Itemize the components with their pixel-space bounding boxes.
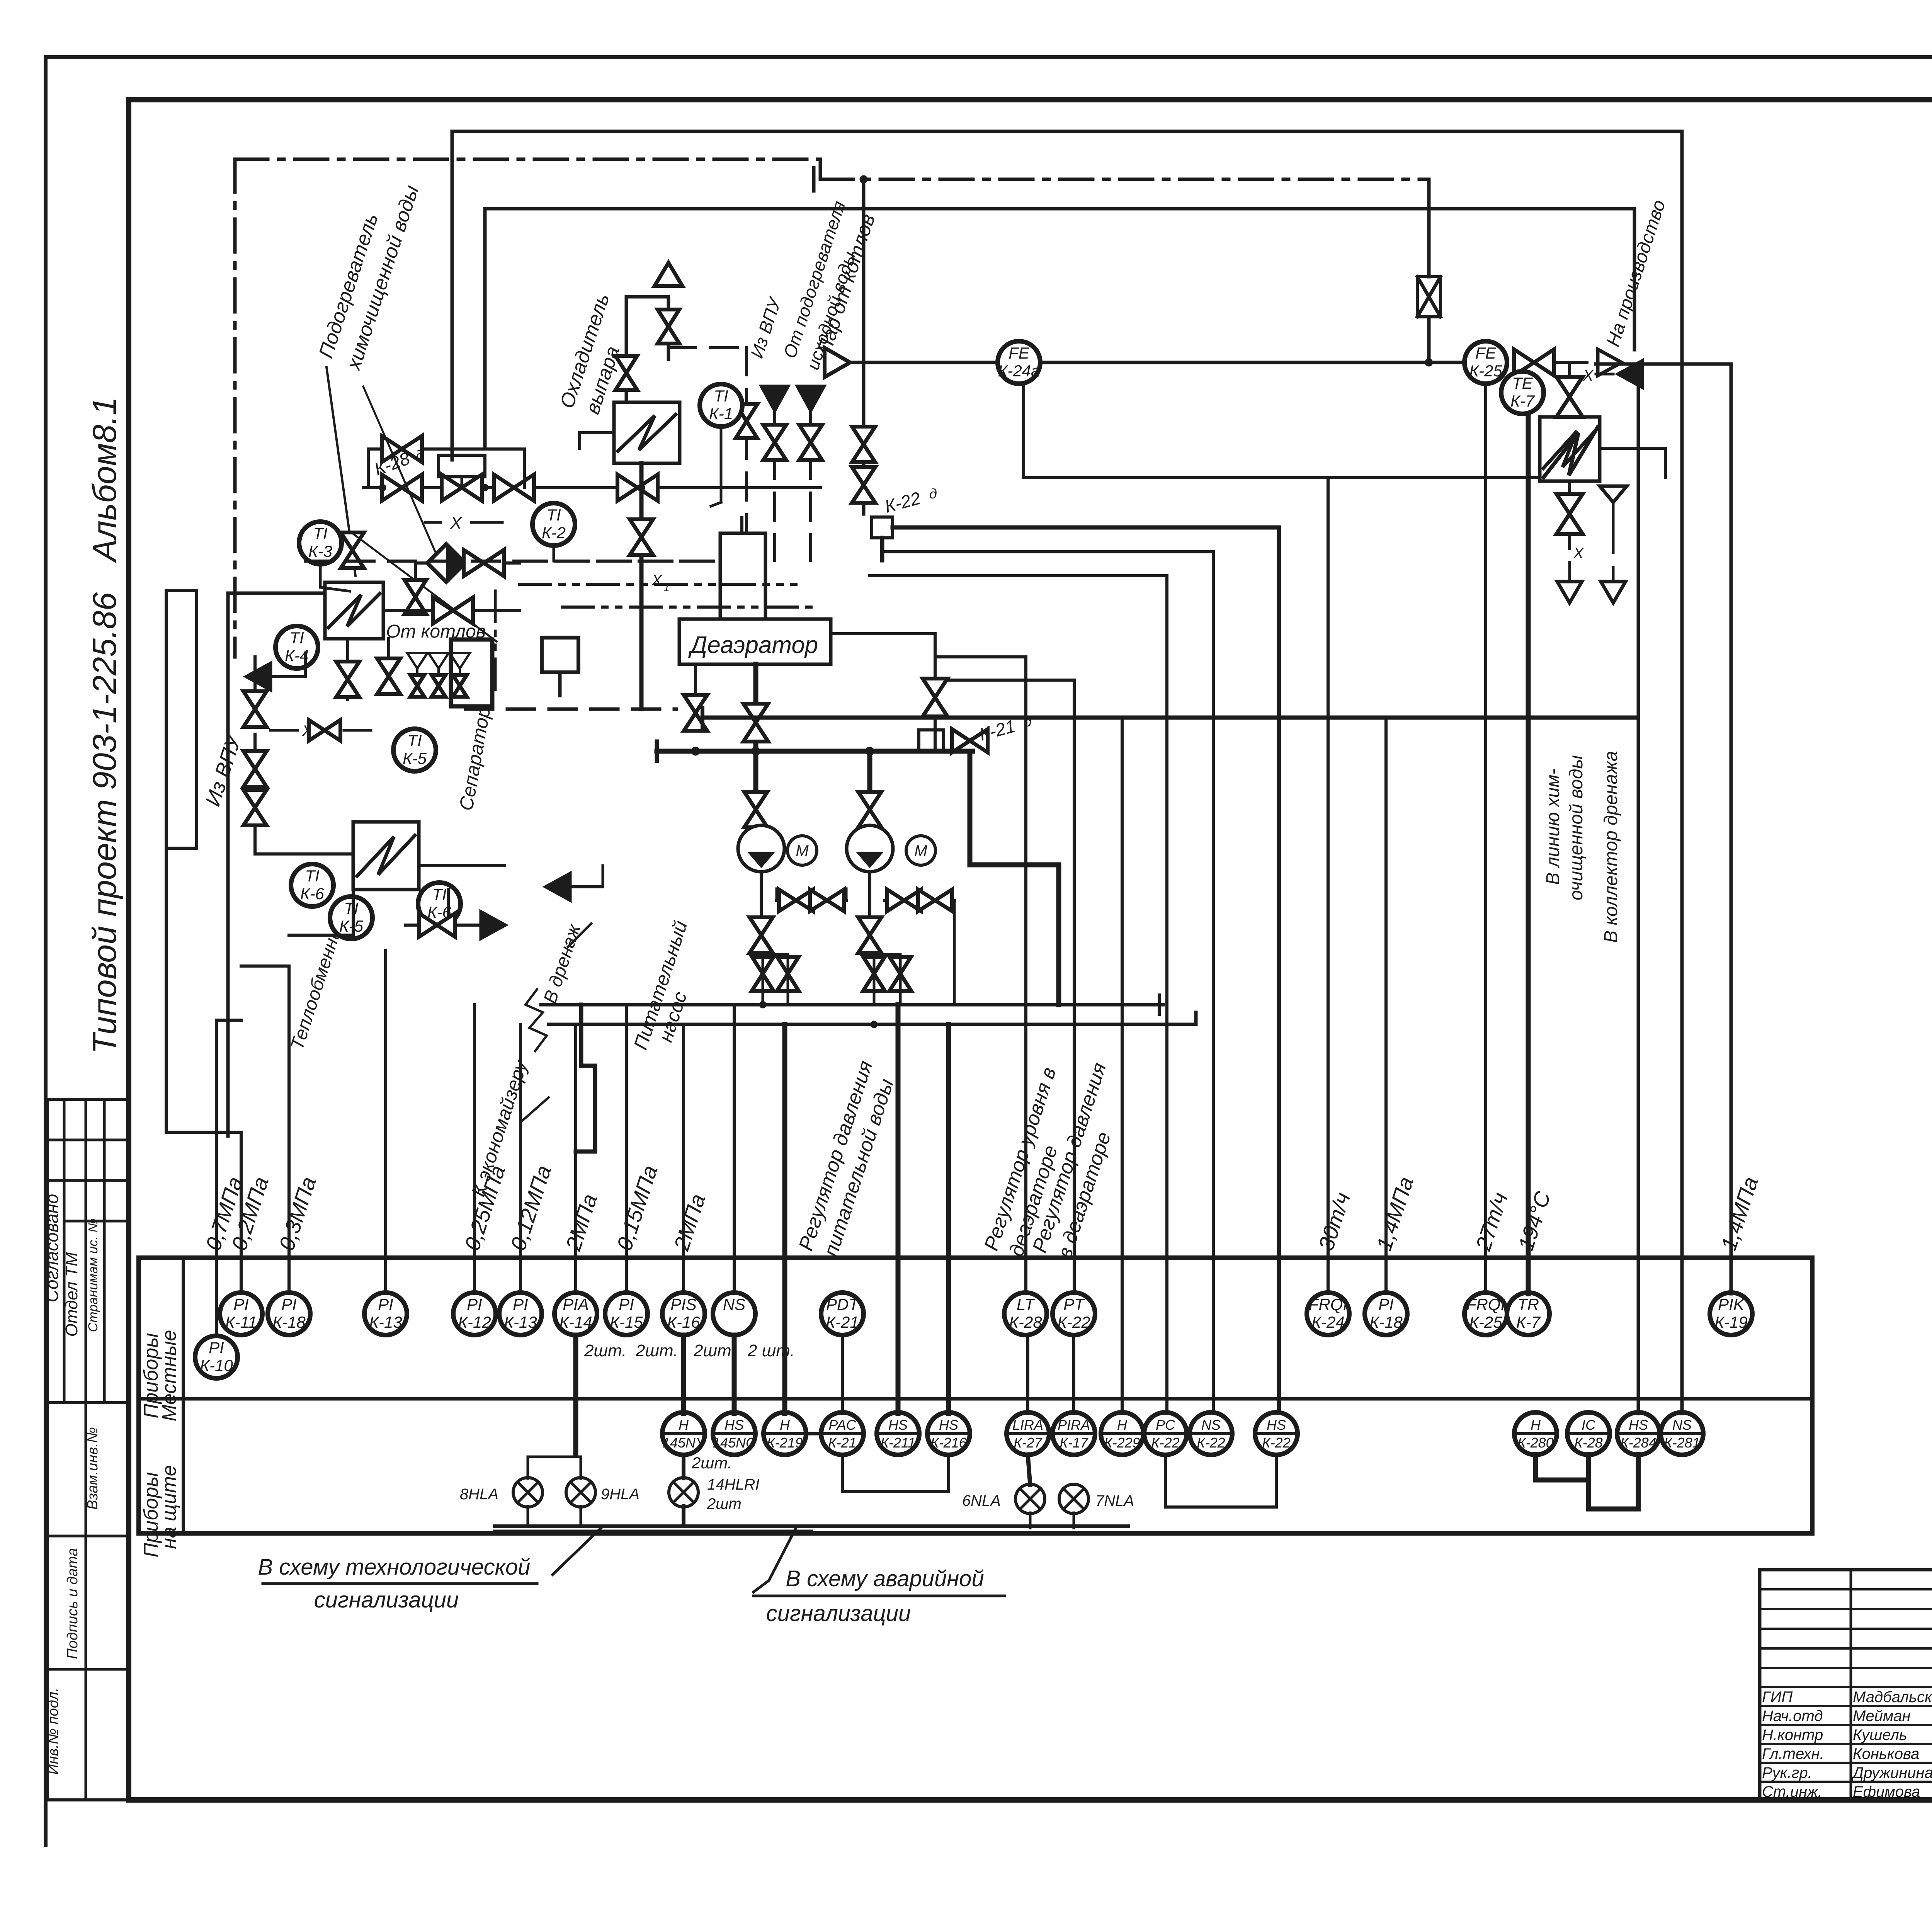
svg-text:27т/ч: 27т/ч <box>1471 1189 1512 1254</box>
vapour cooler inlet chain <box>626 297 668 402</box>
svg-text:TI: TI <box>546 506 561 524</box>
drain dash line <box>1612 526 1615 580</box>
K-28d bypass valve <box>382 436 422 462</box>
svg-text:8HLA: 8HLA <box>460 1486 498 1503</box>
stamp column vertical 222 <box>85 1099 87 1800</box>
K-28d main line <box>363 486 820 489</box>
svg-text:TI: TI <box>305 867 320 885</box>
text В схему аварийной <box>753 1566 1005 1596</box>
instrument PDT К-21 local <box>821 1293 864 1335</box>
pump1 suction valve <box>744 751 767 830</box>
svg-text:К-18: К-18 <box>1369 1313 1403 1331</box>
svg-text:В схему аварийной: В схему аварийной <box>786 1566 984 1591</box>
pump1 out valve <box>750 917 773 953</box>
label Пар от котлов <box>813 211 879 357</box>
instrument PI К-11 local <box>220 1293 262 1335</box>
K-28d left riser <box>367 449 370 488</box>
TI K-1 stem <box>711 426 721 506</box>
HX2 outlet right <box>419 864 505 867</box>
svg-text:1,4МПа: 1,4МПа <box>1371 1174 1418 1254</box>
svg-text:HS: HS <box>724 1417 744 1433</box>
funnel drain right <box>1600 486 1627 526</box>
svg-text:К-10: К-10 <box>200 1356 233 1374</box>
filter diamond <box>427 544 465 582</box>
pump 1 <box>738 825 784 872</box>
svg-text:Рук.гр.: Рук.гр. <box>1762 1764 1812 1781</box>
K-28d right valve <box>617 475 658 501</box>
svg-text:TI: TI <box>313 524 328 543</box>
svg-text:К-3: К-3 <box>308 542 332 560</box>
dash-dot-dot line B <box>562 606 819 609</box>
svg-text:PAC: PAC <box>828 1417 856 1433</box>
svg-text:PC: PC <box>1156 1417 1175 1433</box>
vapour valve 2 <box>616 356 637 390</box>
thermometer TI К-4 <box>276 626 318 668</box>
K-22d box <box>872 486 937 538</box>
pump crosstie 1 <box>777 889 846 911</box>
svg-text:Странимам ис. №: Странимам ис. № <box>86 1218 100 1332</box>
svg-text:на щите: на щите <box>158 1465 180 1549</box>
instrument PI К-18 local <box>1365 1293 1407 1335</box>
leader to tech signal text <box>553 1526 603 1575</box>
right HX line to valve <box>1568 362 1571 377</box>
svg-text:145NC: 145NC <box>713 1435 756 1451</box>
outflow arrow to chem line <box>1557 568 1582 603</box>
riser diamond <box>414 563 417 611</box>
svg-text:TI: TI <box>289 629 304 647</box>
svg-text:Х: Х <box>651 572 663 589</box>
svg-text:В коллектор дренажа: В коллектор дренажа <box>1601 751 1621 943</box>
instrument LT К-28 local <box>1004 1293 1047 1335</box>
PI K-10 feeder <box>216 1020 241 1336</box>
outflow arrow На производство <box>1598 349 1622 376</box>
long pipe y1857 <box>466 708 1634 727</box>
discharge junction dots <box>759 1001 878 1028</box>
instrument Н К-229 panel <box>1101 1412 1143 1455</box>
pipe H3 <box>485 207 1634 211</box>
pump2 discharge <box>868 872 871 951</box>
svg-text:NS: NS <box>1201 1417 1221 1433</box>
steam pipe junction <box>1425 359 1433 366</box>
label Питательный насос <box>629 918 692 1053</box>
svg-text:К-6: К-6 <box>300 885 325 903</box>
svg-text:К-280: К-280 <box>1517 1435 1553 1451</box>
label Сепаратор <box>455 705 495 812</box>
deaerator box <box>679 619 831 664</box>
label очищенной воды <box>1566 755 1587 900</box>
label Из ВПУ <box>201 731 246 809</box>
svg-text:Кушель: Кушель <box>1853 1726 1907 1744</box>
svg-text:Отдел ТМ: Отдел ТМ <box>62 1252 81 1337</box>
outflow arrow в дренаж mid <box>406 912 505 938</box>
left loop vertical <box>165 464 168 1132</box>
svg-text:К-27: К-27 <box>1014 1435 1043 1451</box>
PT feeder <box>935 680 1074 1294</box>
K-21d down <box>970 752 1059 1005</box>
svg-text:1: 1 <box>663 582 670 594</box>
svg-text:HS: HS <box>1267 1417 1286 1433</box>
deaerator drop main <box>743 664 768 751</box>
instrument PI К-18 local <box>268 1293 310 1335</box>
thermal element TE К-7 <box>1501 371 1544 414</box>
lamp 7NLA <box>1059 1484 1134 1514</box>
valve on dash feed <box>763 425 786 460</box>
svg-text:0,25МПа: 0,25МПа <box>459 1162 510 1254</box>
discharge bus 1 <box>541 1003 1163 1007</box>
svg-text:2 шт.: 2 шт. <box>747 1341 795 1360</box>
signal bus <box>495 1526 1128 1531</box>
K-28d actuator box <box>439 455 485 488</box>
svg-text:К-2: К-2 <box>542 524 566 542</box>
PI K-18 feeder <box>241 966 289 1294</box>
svg-text:К-28: К-28 <box>1009 1313 1042 1331</box>
svg-text:К-216: К-216 <box>930 1435 967 1451</box>
svg-text:2шт.: 2шт. <box>691 1454 732 1472</box>
panel link IC loop <box>1536 1454 1638 1509</box>
TI K-3 stem <box>320 564 350 591</box>
deaerator top dash <box>305 560 720 563</box>
svg-text:Деаэратор: Деаэратор <box>688 632 818 658</box>
svg-text:Дружинина: Дружинина <box>1851 1764 1932 1781</box>
nested L3 <box>869 576 1167 1412</box>
svg-text:2шт: 2шт <box>707 1495 742 1512</box>
qty label 2шт panel <box>691 1454 732 1472</box>
arrow Из ВПУ top <box>747 294 788 410</box>
svg-text:FE: FE <box>1009 344 1030 362</box>
svg-text:К-13: К-13 <box>369 1313 402 1331</box>
lamp drop lines <box>528 1457 581 1526</box>
svg-text:д: д <box>1024 714 1032 730</box>
svg-text:Н: Н <box>679 1417 689 1433</box>
svg-text:К-21: К-21 <box>826 1313 859 1331</box>
dash line y1452 right <box>520 560 726 563</box>
break mark <box>526 989 547 1051</box>
svg-text:К-25: К-25 <box>1469 1313 1502 1331</box>
riser to PIK <box>1730 364 1733 1294</box>
svg-text:К-22: К-22 <box>883 488 923 516</box>
lamp 9HLA <box>566 1478 639 1507</box>
K-22d out line <box>882 527 1279 560</box>
pressure value labels <box>201 1162 1763 1254</box>
X1 tie <box>270 720 371 741</box>
svg-text:К-24: К-24 <box>1311 1313 1344 1331</box>
svg-text:М: М <box>796 842 809 859</box>
text В схему технологической <box>258 1555 537 1584</box>
instrument NS local <box>713 1293 755 1335</box>
svg-text:К-21: К-21 <box>977 716 1017 744</box>
top row stems <box>0 0 0 0</box>
vapour valve 3 <box>736 404 757 438</box>
HX1 outlet line <box>383 609 520 612</box>
riser from H3 right <box>1633 209 1636 350</box>
svg-text:Х: Х <box>1583 367 1594 384</box>
text сигнализации 2 <box>766 1601 911 1626</box>
panel link PAC-K21 loop <box>842 1454 949 1492</box>
svg-text:7NLA: 7NLA <box>1095 1492 1134 1509</box>
svg-text:Х: Х <box>1573 545 1584 562</box>
svg-text:PI: PI <box>209 1339 224 1357</box>
K-22d chain <box>852 427 875 503</box>
heat exchanger right <box>1540 417 1600 481</box>
riser from H1 left <box>451 131 454 460</box>
svg-text:TE: TE <box>1512 374 1533 392</box>
svg-text:PI: PI <box>233 1295 249 1313</box>
svg-text:2шт.: 2шт. <box>635 1341 678 1360</box>
label Деаэратор <box>688 632 818 658</box>
leader lines cross <box>352 386 497 641</box>
K-28d right riser <box>523 449 526 488</box>
instrument PI К-15 local <box>605 1293 648 1335</box>
right HX inner second zigzag <box>1544 427 1598 477</box>
instrument PAC К-21 panel <box>821 1412 864 1455</box>
feeder risers to panel circles <box>576 1005 949 1455</box>
svg-text:Гл.техн.: Гл.техн. <box>1762 1745 1824 1762</box>
arrow to drain collector <box>1601 582 1626 603</box>
svg-text:К-5: К-5 <box>403 749 427 767</box>
mid link H219-PAC <box>806 1432 821 1436</box>
flow nozzle on riser <box>1417 179 1440 362</box>
svg-text:0,3МПа: 0,3МПа <box>274 1174 321 1254</box>
svg-text:К-24а: К-24а <box>998 362 1040 380</box>
svg-text:В линию хим-: В линию хим- <box>1543 769 1563 885</box>
svg-text:Н: Н <box>1531 1417 1541 1433</box>
svg-text:LIRA: LIRA <box>1012 1417 1043 1433</box>
svg-text:К-1: К-1 <box>709 405 733 423</box>
svg-text:Местные: Местные <box>158 1330 180 1422</box>
K-28d bypass top line <box>368 447 524 451</box>
instrument band divider <box>139 1397 1812 1401</box>
pump crosstie 2 <box>885 890 954 1005</box>
instrument PIS К-16 local <box>662 1293 705 1335</box>
svg-text:PIK: PIK <box>1718 1295 1745 1313</box>
panel link HS-NS bridge <box>1638 1399 1639 1412</box>
svg-text:PT: PT <box>1063 1295 1085 1313</box>
lamp drop lines 2 <box>682 1454 685 1526</box>
K-28d main valve 2 <box>442 475 482 501</box>
label От котлов <box>386 621 486 642</box>
valve below HX1 a <box>336 662 359 697</box>
sheet outer border top <box>46 55 1932 59</box>
svg-text:0,15МПа: 0,15МПа <box>612 1162 662 1254</box>
sheet outer border left <box>44 57 48 1845</box>
TE stem <box>1526 413 1531 1294</box>
svg-text:145NY: 145NY <box>662 1435 706 1451</box>
pump2 suction valve <box>858 751 881 827</box>
instrument HS К-284 panel <box>1617 1412 1660 1455</box>
stamp column vertical 166 <box>63 1099 66 1403</box>
riser HS K-284 <box>1637 364 1640 1414</box>
deaerator inlet top <box>740 518 743 533</box>
valve under diamond <box>405 580 426 614</box>
label химочищенной воды <box>342 183 423 374</box>
H2b tee mark <box>812 168 816 191</box>
lamp drop lines 3 <box>1030 1513 1074 1528</box>
stamp group divider <box>47 1401 129 1404</box>
svg-text:К-14: К-14 <box>559 1313 592 1331</box>
svg-text:PI: PI <box>619 1295 634 1313</box>
stamp row line <box>47 1179 129 1182</box>
label В дренаж <box>540 921 591 1006</box>
right HX drain valve <box>1556 481 1583 534</box>
svg-text:К-11: К-11 <box>225 1313 257 1331</box>
label X1 cooler <box>651 572 670 594</box>
svg-text:Ефимова: Ефимова <box>1853 1783 1920 1800</box>
svg-text:TI: TI <box>714 387 728 405</box>
PDT/PAC link <box>841 1335 844 1414</box>
HX2 out down <box>447 890 450 925</box>
funnel steam from boilers <box>825 348 850 377</box>
tall rect filter <box>166 590 197 848</box>
K-28d main valve 1 <box>382 475 422 501</box>
IC28 feeder <box>1588 1335 1589 1414</box>
stamp text Согласовано <box>42 1194 62 1303</box>
svg-text:К-211: К-211 <box>881 1435 916 1451</box>
label X1 below <box>1570 534 1584 568</box>
instrument PIA К-14 local <box>554 1293 597 1335</box>
K-28d main valve 3 <box>494 475 534 501</box>
dash-dot vertical left <box>233 159 237 657</box>
svg-text:TI: TI <box>432 885 447 903</box>
instrument NS К-22 panel <box>1190 1412 1232 1455</box>
PI feeder x3587 <box>1384 718 1388 1294</box>
svg-text:К-5: К-5 <box>339 917 364 935</box>
instrument HS К-211 panel <box>877 1412 919 1455</box>
nested L1 <box>1277 527 1281 1412</box>
svg-text:очищенной воды: очищенной воды <box>1566 755 1587 900</box>
cooler bottom valve <box>630 519 653 555</box>
stamp text Подпись и дата <box>65 1548 81 1659</box>
band label Приборы местные <box>140 1330 180 1422</box>
svg-text:HS: HS <box>939 1417 958 1433</box>
svg-text:PIS: PIS <box>670 1295 697 1313</box>
instrument LIRA К-27 panel <box>1007 1412 1049 1455</box>
svg-text:30т/ч: 30т/ч <box>1313 1189 1355 1253</box>
cooler left line <box>580 433 614 448</box>
svg-text:HS: HS <box>1629 1417 1648 1433</box>
instrument PI К-10 local <box>195 1336 238 1378</box>
label К экономайзеру <box>467 1057 549 1199</box>
svg-text:PI: PI <box>467 1295 482 1313</box>
svg-text:К-281: К-281 <box>1664 1435 1700 1451</box>
left dash riser <box>304 653 307 677</box>
svg-text:В дренаж: В дренаж <box>540 921 585 1006</box>
riser from H3 left <box>483 209 487 448</box>
thermometer TI К-5 upper <box>393 729 436 771</box>
FRQI24 feeder <box>1327 478 1330 1294</box>
svg-text:1,4МПа: 1,4МПа <box>1716 1174 1763 1254</box>
dash-dot-dot line A <box>520 583 796 586</box>
heat exchanger охладитель выпара <box>614 402 680 463</box>
label Охладитель <box>556 291 614 411</box>
svg-text:194°С: 194°С <box>1513 1188 1555 1254</box>
diamond line <box>415 561 520 565</box>
svg-text:К-22: К-22 <box>1057 1313 1090 1331</box>
valve on dash feed2 <box>799 425 822 460</box>
leader to emergency signal text <box>753 1528 796 1592</box>
svg-text:В схему технологической: В схему технологической <box>258 1555 531 1580</box>
pump 2 motor <box>906 836 935 865</box>
flow element FE К-25 <box>1464 341 1507 384</box>
svg-text:FRQI: FRQI <box>1466 1295 1505 1313</box>
svg-text:Мадбальский: Мадбальский <box>1853 1689 1932 1706</box>
svg-text:Н.контр: Н.контр <box>1762 1726 1823 1744</box>
svg-text:NS: NS <box>723 1295 745 1313</box>
bus T end <box>1159 995 1217 1014</box>
bus jog <box>576 1005 595 1152</box>
thermometer TI К-1 <box>700 384 742 427</box>
pump 1 motor <box>787 836 817 865</box>
svg-text:Инв.№ подл.: Инв.№ подл. <box>45 1687 61 1774</box>
signature rows <box>1760 1589 1932 1782</box>
svg-text:Нач.отд: Нач.отд <box>1762 1708 1823 1725</box>
thermometer TI К-5 mid <box>330 896 372 939</box>
instrument IC К-28 panel <box>1567 1412 1610 1455</box>
boiler manifold funnels <box>407 653 470 697</box>
HX2 bottom line <box>289 890 353 935</box>
instrument FRQI К-25 local <box>1464 1293 1507 1335</box>
svg-text:Из ВПУ: Из ВПУ <box>747 294 785 361</box>
HX1 bottom risers <box>348 639 389 699</box>
K-28d junction dots <box>379 484 488 491</box>
svg-text:К-19: К-19 <box>1714 1313 1747 1331</box>
instrument TR К-7 local <box>1507 1293 1549 1335</box>
label К-28д <box>372 447 426 480</box>
LT/PT links <box>1026 1335 1074 1414</box>
stamp text Справ номер <box>86 1218 100 1332</box>
panel link PC loop <box>1165 1454 1276 1507</box>
label Регулятор давления деаэратор <box>1028 1060 1115 1261</box>
svg-text:LT: LT <box>1017 1295 1036 1313</box>
svg-text:д: д <box>929 486 937 502</box>
HX1 outlet valve <box>433 597 473 624</box>
left loop bottom <box>166 1132 241 1294</box>
right HX outlet to H-line <box>1600 448 1665 478</box>
svg-text:Согласовано: Согласовано <box>42 1194 62 1303</box>
stamp row line <box>47 1668 129 1671</box>
instrument FRQI К-24 local <box>1307 1293 1349 1335</box>
instrument PI К-13 local <box>499 1293 542 1335</box>
svg-text:К-28: К-28 <box>1574 1435 1602 1451</box>
deaerator right lines <box>831 634 935 723</box>
stamp text Инв № подл <box>45 1687 61 1774</box>
panel link LIRA down <box>1028 1454 1030 1485</box>
svg-text:К-25: К-25 <box>1469 362 1502 380</box>
instrument PI К-13 local <box>364 1293 407 1335</box>
stamp row line <box>47 1139 129 1141</box>
H2 step <box>819 159 822 179</box>
svg-text:К-18: К-18 <box>272 1313 306 1331</box>
instrument band label column <box>182 1258 185 1533</box>
svg-text:PI: PI <box>513 1295 528 1313</box>
stamp column vertical 270 <box>103 1099 106 1403</box>
HX1 inlet left <box>228 593 325 1136</box>
K-21d riser <box>923 679 947 750</box>
instrument NS К-281 panel <box>1661 1412 1703 1455</box>
svg-text:К-219: К-219 <box>767 1435 803 1451</box>
pump 2 <box>847 825 893 872</box>
svg-text:2шт.: 2шт. <box>693 1341 736 1360</box>
line y1236 from FE24 <box>1024 383 1540 478</box>
pipe top H1 <box>452 130 1682 133</box>
svg-text:FRQI: FRQI <box>1309 1295 1348 1313</box>
svg-text:Х: Х <box>450 514 462 532</box>
instrument Н К-280 panel <box>1514 1412 1557 1455</box>
svg-text:TI: TI <box>344 899 359 917</box>
label Регулятор уровня <box>980 1065 1062 1259</box>
svg-text:Мейман: Мейман <box>1853 1708 1911 1725</box>
TI K-2 stem <box>553 545 555 561</box>
margin text Альбом <box>86 397 123 563</box>
